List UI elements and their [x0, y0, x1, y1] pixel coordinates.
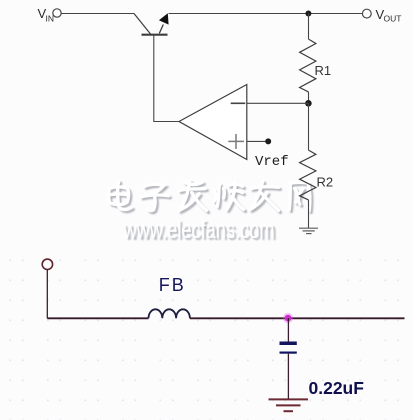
- wire R2 to ground: [308, 200, 310, 228]
- svg-text:FB: FB: [159, 275, 186, 295]
- svg-text:R1: R1: [315, 63, 332, 78]
- op-amp U1: [179, 85, 247, 160]
- wire horizontal main (left of FB): [47, 317, 148, 319]
- label watermark text line 2 www.elecfans.com: [123, 216, 277, 246]
- node junction (magenta): [283, 313, 293, 323]
- resistor R2: [300, 103, 316, 200]
- wire VOUT node down to R1: [308, 14, 310, 40]
- svg-text:R2: R2: [317, 175, 334, 190]
- node junction top (collector / R1): [305, 11, 311, 17]
- svg-text:0.22uF: 0.22uF: [309, 378, 365, 398]
- svg-text:IN: IN: [46, 14, 55, 24]
- label R1: [315, 63, 332, 78]
- inductor FB: [149, 309, 190, 318]
- node VIN terminal: [53, 9, 61, 17]
- node VOUT terminal: [362, 9, 371, 18]
- label watermark text line 1: [109, 181, 313, 213]
- transistor Q1 (PNP pass transistor): [134, 13, 169, 35]
- label R2: [317, 175, 334, 190]
- wire feedback node to op-amp inverting input: [247, 102, 309, 104]
- wire transistor collector to VOUT: [169, 13, 364, 15]
- label Vref: [255, 154, 289, 170]
- node input terminal (bottom circuit): [42, 259, 52, 269]
- node Vref terminal dot: [265, 138, 271, 144]
- ground (R2 bottom): [299, 228, 318, 233]
- label 0.22uF: [309, 378, 365, 398]
- svg-text:OUT: OUT: [384, 14, 402, 24]
- label VOUT: [376, 7, 402, 24]
- wire FB to right edge: [190, 317, 405, 319]
- wire terminal down: [46, 269, 48, 318]
- resistor R1: [300, 39, 316, 92]
- svg-text:www.elecfans.com: www.elecfans.com: [123, 216, 275, 244]
- ground (capacitor): [269, 399, 309, 411]
- node feedback junction: [305, 100, 312, 107]
- wire capacitor to ground: [287, 354, 289, 400]
- capacitor C1 0.22uF: [280, 342, 297, 354]
- wire op-amp output to transistor base: [154, 35, 179, 122]
- wire op-amp non-inverting input to Vref: [247, 140, 266, 142]
- label VIN: [38, 6, 55, 24]
- wire R1 to feedback node: [308, 92, 310, 103]
- label FB: [159, 275, 186, 295]
- wire junction to capacitor: [287, 318, 289, 342]
- svg-text:Vref: Vref: [255, 154, 289, 170]
- wire VIN to transistor emitter: [61, 13, 134, 15]
